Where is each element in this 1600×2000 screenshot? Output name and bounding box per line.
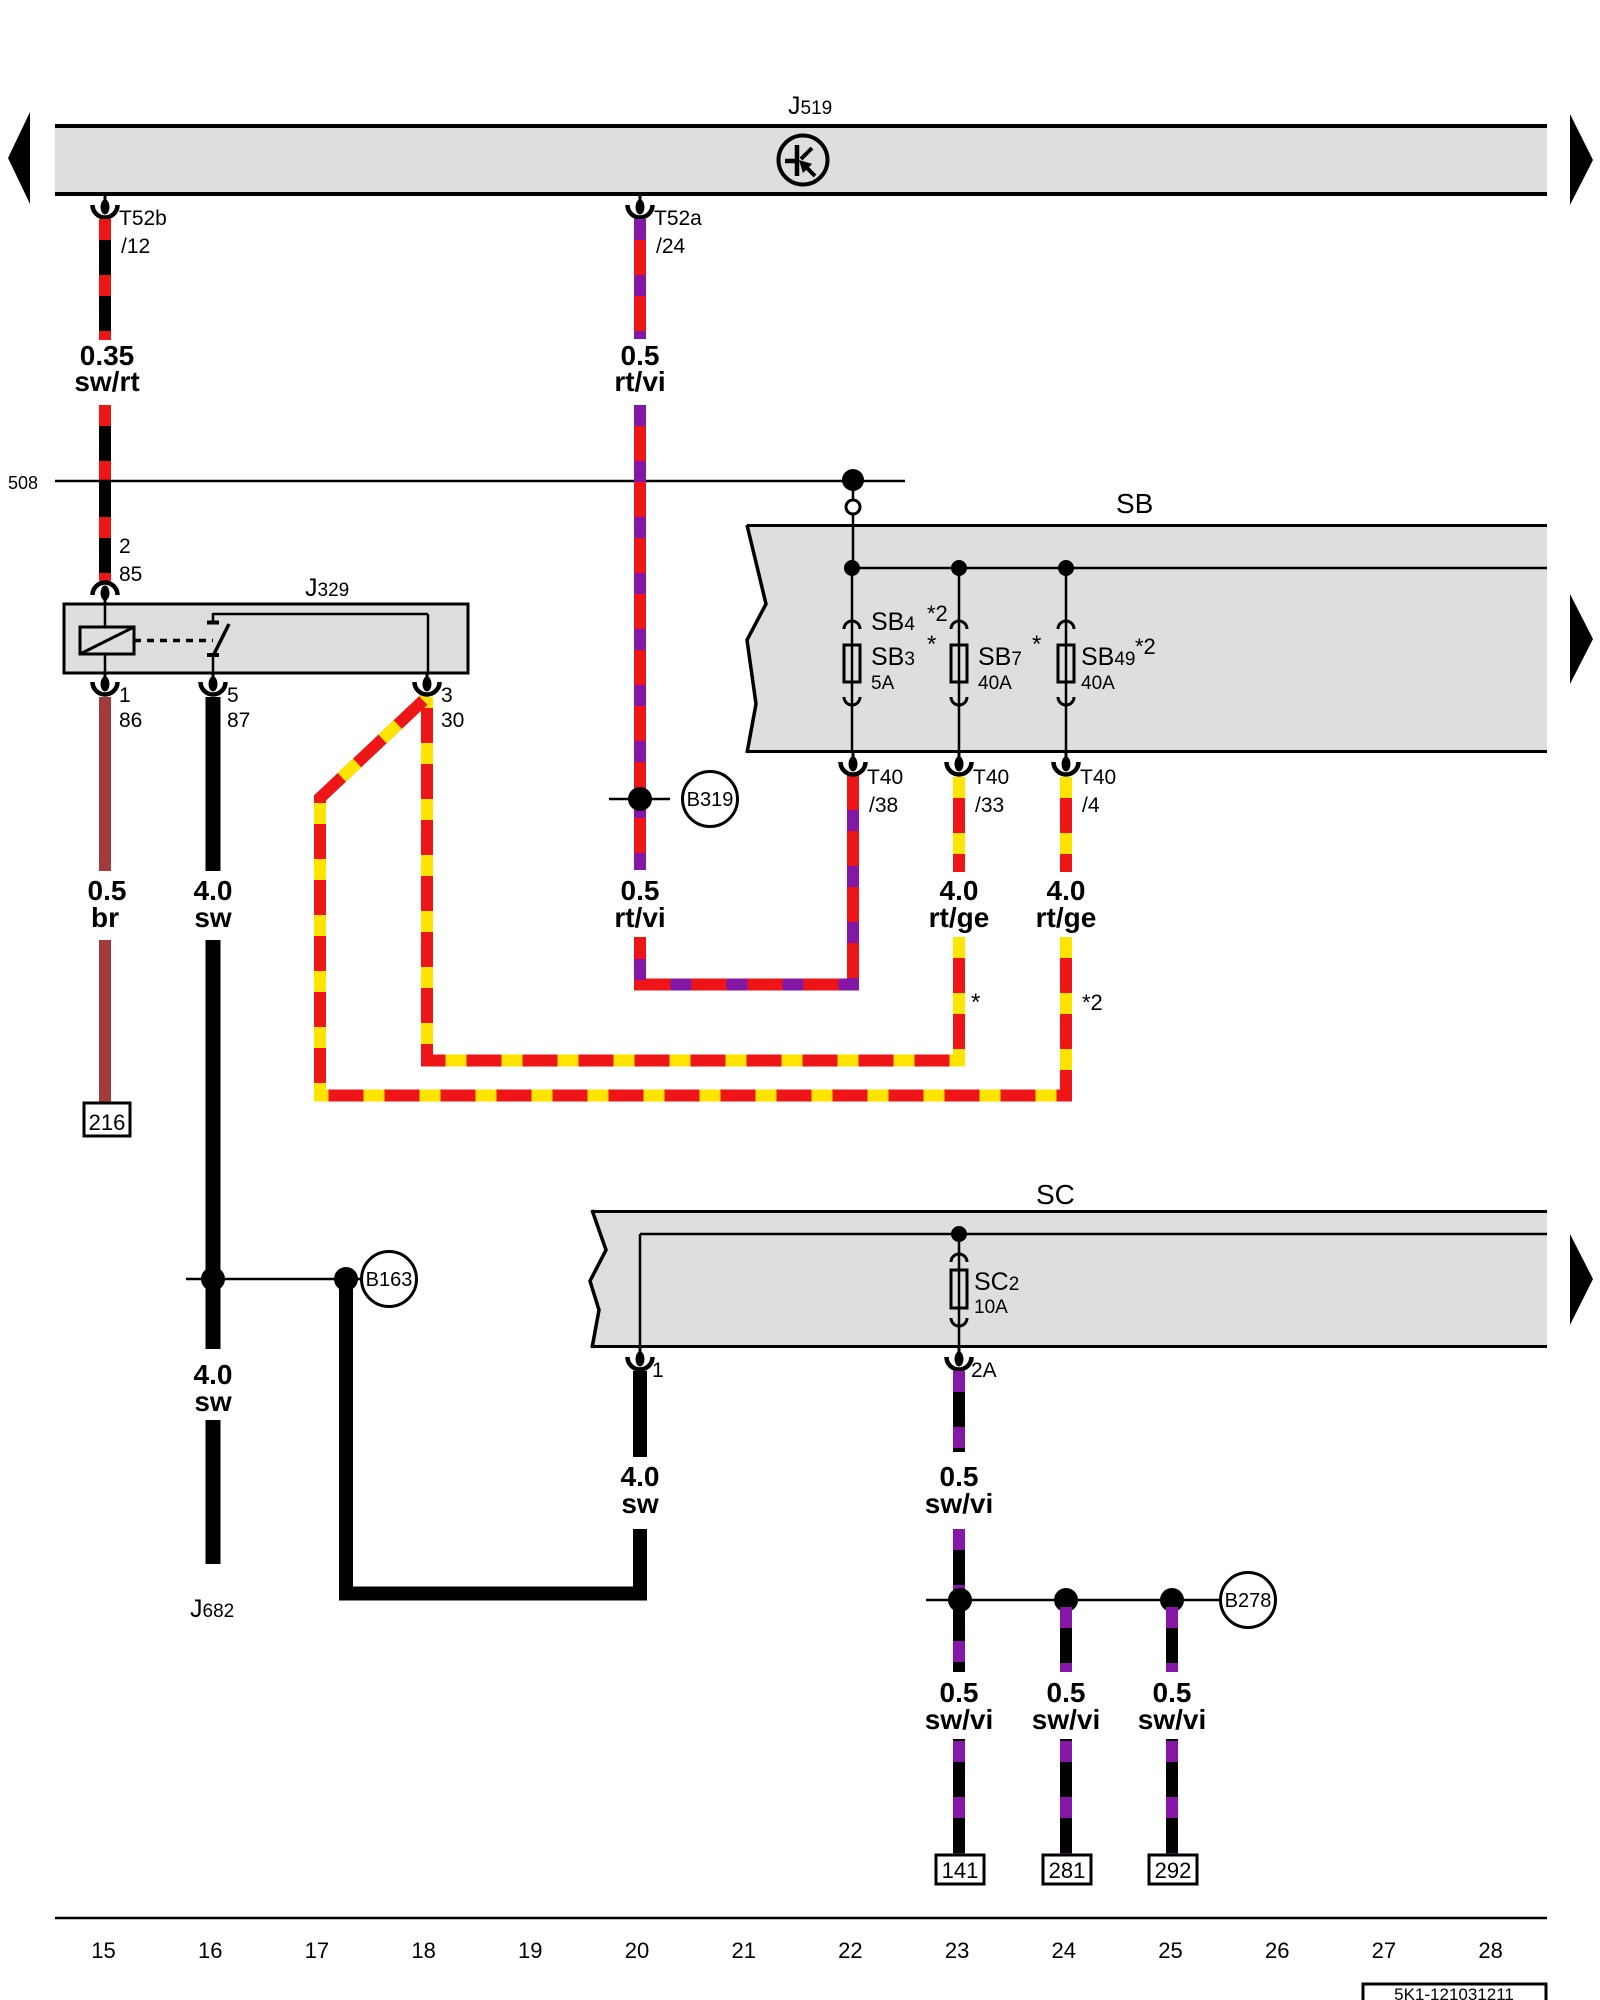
svg-text:23: 23 bbox=[945, 1938, 969, 1963]
svg-text:20: 20 bbox=[625, 1938, 649, 1963]
label SB3 5A bbox=[871, 643, 915, 694]
wire 0.5 sw/vi branch col25 bbox=[1166, 1600, 1178, 1672]
label T40 /33 bbox=[973, 766, 1009, 817]
component J519 electronics control module bus bar bbox=[55, 124, 1547, 196]
svg-text:*: * bbox=[971, 989, 980, 1016]
component SB fuse box bbox=[747, 524, 1547, 753]
fuse SB49 40A symbol bbox=[1058, 621, 1074, 705]
label T52a /24 bbox=[654, 207, 702, 258]
label T40 /4 bbox=[1080, 766, 1116, 817]
label SB7 40A bbox=[978, 643, 1022, 694]
wire from ring to SB internal bus bbox=[852, 514, 855, 568]
fuse SC2 10A symbol bbox=[951, 1254, 967, 1326]
label 508 bbox=[8, 473, 38, 493]
pin T40/4 of SB bbox=[1054, 753, 1079, 775]
label 0.5 sw/vi col24 bbox=[1032, 1677, 1100, 1735]
ground 141 bbox=[936, 1855, 984, 1884]
svg-text:*2: *2 bbox=[927, 601, 948, 626]
wire coil to pin86 bbox=[104, 654, 107, 673]
pin 1 of SC bbox=[628, 1348, 653, 1369]
svg-text:27: 27 bbox=[1372, 1938, 1396, 1963]
wire from 508 line into SB bbox=[852, 480, 855, 500]
svg-text:40A: 40A bbox=[1081, 673, 1115, 694]
svg-text:2A: 2A bbox=[971, 1359, 997, 1382]
wire 4.0 sw middle segment through B163 bbox=[206, 940, 221, 1349]
wire SB bus to fuse SB7 bbox=[958, 568, 961, 753]
svg-text:SB: SB bbox=[1116, 488, 1153, 519]
pin T52b/12 of J519 bbox=[93, 196, 118, 218]
junction dot on rt/vi wire at B319 bbox=[628, 787, 652, 811]
svg-text:85: 85 bbox=[119, 563, 142, 586]
pin T40/33 of SB bbox=[947, 753, 972, 775]
svg-text:T40: T40 bbox=[867, 766, 903, 789]
wire 4.0 sw from B163 to SC pin 1 bbox=[346, 1279, 640, 1594]
label pin 2A of SC bbox=[971, 1359, 997, 1382]
wire 0.5 rt/vi segment from T52a down bbox=[634, 219, 646, 339]
ground 281 bbox=[1043, 1855, 1091, 1884]
continuation arrow right of SC bbox=[1570, 1234, 1593, 1325]
label 2 85 bbox=[119, 535, 142, 586]
svg-text:5K1-121031211: 5K1-121031211 bbox=[1394, 1985, 1514, 2000]
svg-text:B319: B319 bbox=[687, 789, 734, 811]
svg-text:1: 1 bbox=[652, 1359, 664, 1382]
grid column numbers 15-28 bbox=[91, 1938, 1503, 1963]
wire pin85 to coil bbox=[104, 604, 107, 627]
pin 3/30 of J329 bbox=[415, 673, 440, 695]
svg-text:T52b: T52b bbox=[119, 207, 167, 230]
label 4.0 rt/ge col24 bbox=[1036, 875, 1097, 933]
wire SC bus to fuse SC2 bbox=[958, 1234, 961, 1348]
svg-text:sw/vi: sw/vi bbox=[925, 1704, 993, 1735]
relay switch contact bbox=[207, 613, 229, 673]
svg-text:292: 292 bbox=[1155, 1858, 1192, 1883]
wire 4.0 rt/ge from T40/4 to relay pin 30 bbox=[320, 697, 1066, 1096]
pin T52a/24 of J519 bbox=[628, 196, 653, 217]
ground 292 bbox=[1149, 1855, 1197, 1884]
label SC bbox=[1036, 1179, 1075, 1210]
svg-text:T40: T40 bbox=[973, 766, 1009, 789]
svg-text:T52a: T52a bbox=[654, 207, 702, 230]
label 4.0 rt/ge col23 bbox=[929, 875, 990, 933]
svg-text:B163: B163 bbox=[366, 1269, 413, 1291]
wire 0.5 rt/vi L-segment up to T40/38 bbox=[640, 775, 853, 985]
junction dot B278 col23 bbox=[948, 1588, 972, 1612]
wire 4.0 rt/ge from T40/33 to relay pin 30 bbox=[427, 697, 959, 1061]
svg-text:21: 21 bbox=[731, 1938, 755, 1963]
svg-text:86: 86 bbox=[119, 709, 142, 732]
svg-text:22: 22 bbox=[838, 1938, 862, 1963]
label 1 86 bbox=[119, 684, 142, 732]
svg-text:rt/ge: rt/ge bbox=[929, 902, 990, 933]
label asterisk near SB7 bbox=[1032, 631, 1041, 658]
label SB bbox=[1116, 488, 1153, 519]
svg-text:5A: 5A bbox=[871, 673, 895, 694]
wire 4.0 rt/ge segment below T40/4 bbox=[1060, 777, 1072, 872]
wire 0.5 br lower segment bbox=[99, 940, 111, 1103]
svg-text:18: 18 bbox=[411, 1938, 435, 1963]
relay internal wire to pin 30 bbox=[213, 614, 428, 673]
label 0.5 rt/vi lower bbox=[614, 875, 665, 933]
svg-text:rt/vi: rt/vi bbox=[614, 902, 665, 933]
node B163 tick line bbox=[186, 1278, 361, 1281]
junction dot SB bus col22 bbox=[844, 560, 860, 576]
dashed actuation link bbox=[134, 639, 213, 643]
svg-text:87: 87 bbox=[227, 709, 250, 732]
wire 4.0 sw upper segment from pin 87 bbox=[206, 697, 221, 871]
wire 0.5 rt/vi segment through node B319 bbox=[634, 405, 646, 870]
svg-text:SC: SC bbox=[1036, 1179, 1075, 1210]
label asterisk near SB3 bbox=[927, 631, 936, 658]
continuation arrow left of J519 bbox=[8, 112, 30, 204]
label 5 87 bbox=[227, 684, 250, 732]
label 0.5 sw/vi col23 upper bbox=[925, 1461, 993, 1519]
grid baseline bbox=[55, 1917, 1547, 1920]
junction dot B278 col25 bbox=[1160, 1588, 1184, 1612]
continuation arrow right of SB bbox=[1570, 594, 1593, 684]
svg-text:sw: sw bbox=[621, 1488, 659, 1519]
wire 4.0 rt/ge segment below T40/33 bbox=[953, 777, 965, 872]
svg-text:10A: 10A bbox=[974, 1297, 1008, 1318]
label J682 bbox=[190, 1595, 234, 1623]
svg-text:40A: 40A bbox=[978, 673, 1012, 694]
node B278 circle bbox=[1221, 1573, 1276, 1628]
svg-text:br: br bbox=[91, 902, 119, 933]
svg-text:1: 1 bbox=[119, 684, 131, 707]
label 4.0 sw col16 upper bbox=[194, 875, 233, 933]
pin 2A of SC bbox=[947, 1348, 972, 1370]
wire 0.5 sw/vi to ground 292 bbox=[1166, 1739, 1178, 1855]
label J329 bbox=[305, 574, 349, 602]
label asterisk on rt/ge col23 bbox=[971, 989, 980, 1016]
svg-text:281: 281 bbox=[1049, 1858, 1086, 1883]
junction dot SB bus col23 bbox=[951, 560, 967, 576]
node B319 circle bbox=[683, 772, 738, 827]
svg-text:sw/vi: sw/vi bbox=[1032, 1704, 1100, 1735]
label SB49 40A *2 bbox=[1081, 634, 1156, 694]
label pin 1 of SC bbox=[652, 1359, 664, 1382]
svg-text:rt/ge: rt/ge bbox=[1036, 902, 1097, 933]
node 508 crossbar line bbox=[55, 480, 905, 483]
svg-text:141: 141 bbox=[942, 1858, 979, 1883]
svg-text:sw/vi: sw/vi bbox=[925, 1488, 993, 1519]
label 0.5 sw/vi col23 lower bbox=[925, 1677, 993, 1735]
junction dot B278 col24 bbox=[1054, 1588, 1078, 1612]
svg-text:sw/vi: sw/vi bbox=[1138, 1704, 1206, 1735]
label 0.5 rt/vi upper bbox=[614, 340, 665, 397]
wire 0.35 sw/rt segment from T52b down bbox=[99, 219, 111, 340]
svg-text:24: 24 bbox=[1052, 1938, 1076, 1963]
svg-text:/24: /24 bbox=[656, 235, 686, 258]
label T40 /38 bbox=[867, 766, 903, 817]
drawing number box bbox=[1363, 1984, 1546, 2000]
svg-text:216: 216 bbox=[89, 1110, 126, 1135]
svg-text:508: 508 bbox=[8, 473, 38, 493]
label SB4 *2 bbox=[871, 601, 948, 636]
pin 1/86 of J329 bbox=[93, 673, 118, 695]
wire 0.5 sw/vi below SC pin 2A bbox=[953, 1371, 965, 1452]
ground 216 bbox=[84, 1103, 130, 1136]
label 3 30 bbox=[441, 684, 464, 732]
svg-text:5: 5 bbox=[227, 684, 239, 707]
svg-text:*: * bbox=[927, 631, 936, 658]
svg-text:19: 19 bbox=[518, 1938, 542, 1963]
label J519 bbox=[788, 92, 832, 120]
svg-text:15: 15 bbox=[91, 1938, 115, 1963]
label 0.35 sw/rt bbox=[74, 340, 139, 397]
svg-text:/4: /4 bbox=[1082, 794, 1100, 817]
label 4.0 sw col20 bbox=[621, 1461, 660, 1519]
pin 2/85 of J329 bbox=[93, 583, 118, 605]
SC internal bus line bbox=[640, 1234, 1547, 1348]
svg-text:30: 30 bbox=[441, 709, 464, 732]
svg-text:25: 25 bbox=[1158, 1938, 1182, 1963]
svg-text:*2: *2 bbox=[1082, 990, 1103, 1015]
label 4.0 sw col16 lower bbox=[194, 1359, 233, 1417]
svg-text:rt/vi: rt/vi bbox=[614, 366, 665, 397]
component SC fuse box bbox=[590, 1210, 1547, 1348]
wire 0.5 br upper segment bbox=[99, 697, 111, 871]
wire 0.5 sw/vi to ground 141 bbox=[953, 1739, 965, 1855]
junction dot SC bus bbox=[951, 1226, 967, 1242]
fuse SB7 40A symbol bbox=[951, 621, 967, 705]
wire 4.0 sw bottom segment to J682 bbox=[206, 1420, 221, 1564]
svg-text:28: 28 bbox=[1478, 1938, 1502, 1963]
svg-text:2: 2 bbox=[119, 535, 131, 558]
component J329 relay box bbox=[64, 604, 468, 673]
pin 5/87 of J329 bbox=[200, 673, 225, 695]
SB internal bus line bbox=[852, 567, 1547, 570]
svg-text:/12: /12 bbox=[121, 235, 150, 258]
svg-text:*2: *2 bbox=[1135, 634, 1156, 659]
node B319 tick line bbox=[609, 798, 670, 801]
junction dot SB bus col24 bbox=[1058, 560, 1074, 576]
svg-text:/33: /33 bbox=[975, 794, 1004, 817]
svg-text:26: 26 bbox=[1265, 1938, 1289, 1963]
svg-text:3: 3 bbox=[441, 684, 453, 707]
svg-text:B278: B278 bbox=[1225, 1590, 1272, 1612]
fuse SB3 5A symbol bbox=[844, 621, 860, 705]
wire SB bus to fuse SB3 bbox=[851, 568, 854, 753]
svg-text:T40: T40 bbox=[1080, 766, 1116, 789]
wire 0.5 sw/vi through B278 bbox=[953, 1529, 965, 1672]
svg-text:17: 17 bbox=[305, 1938, 329, 1963]
internal connection symbol in J519 bbox=[779, 136, 828, 185]
connection ring above SB bbox=[846, 500, 860, 514]
node B163 circle bbox=[362, 1252, 417, 1307]
svg-text:16: 16 bbox=[198, 1938, 222, 1963]
pin T40/38 of SB bbox=[841, 753, 866, 775]
svg-text:/38: /38 bbox=[869, 794, 898, 817]
wire SB bus to fuse SB49 bbox=[1065, 568, 1068, 753]
wire 4.0 sw below SC pin 1 bbox=[633, 1371, 647, 1457]
wire 0.35 sw/rt segment to relay pin 85 bbox=[99, 405, 111, 581]
label 0.5 sw/vi col25 bbox=[1138, 1677, 1206, 1735]
svg-text:sw: sw bbox=[194, 1386, 232, 1417]
relay coil of J329 bbox=[80, 627, 134, 654]
label asterisk2 on rt/ge col24 bbox=[1082, 990, 1103, 1015]
wire 0.5 sw/vi branch col24 bbox=[1060, 1600, 1072, 1672]
svg-text:sw: sw bbox=[194, 902, 232, 933]
wire 0.5 sw/vi to ground 281 bbox=[1060, 1739, 1072, 1855]
node B278 tick line bbox=[926, 1599, 1220, 1602]
label 0.5 br bbox=[88, 875, 127, 933]
svg-text:*: * bbox=[1032, 631, 1041, 658]
label SC2 10A bbox=[974, 1268, 1019, 1318]
continuation arrow right of J519 bbox=[1570, 114, 1593, 205]
junction dot on 508 line above SB bbox=[842, 469, 864, 491]
junction dot B163 branch bbox=[334, 1267, 358, 1291]
svg-text:sw/rt: sw/rt bbox=[74, 366, 139, 397]
label T52b /12 bbox=[119, 207, 167, 258]
junction dot B163 on col16 wire bbox=[201, 1267, 225, 1291]
